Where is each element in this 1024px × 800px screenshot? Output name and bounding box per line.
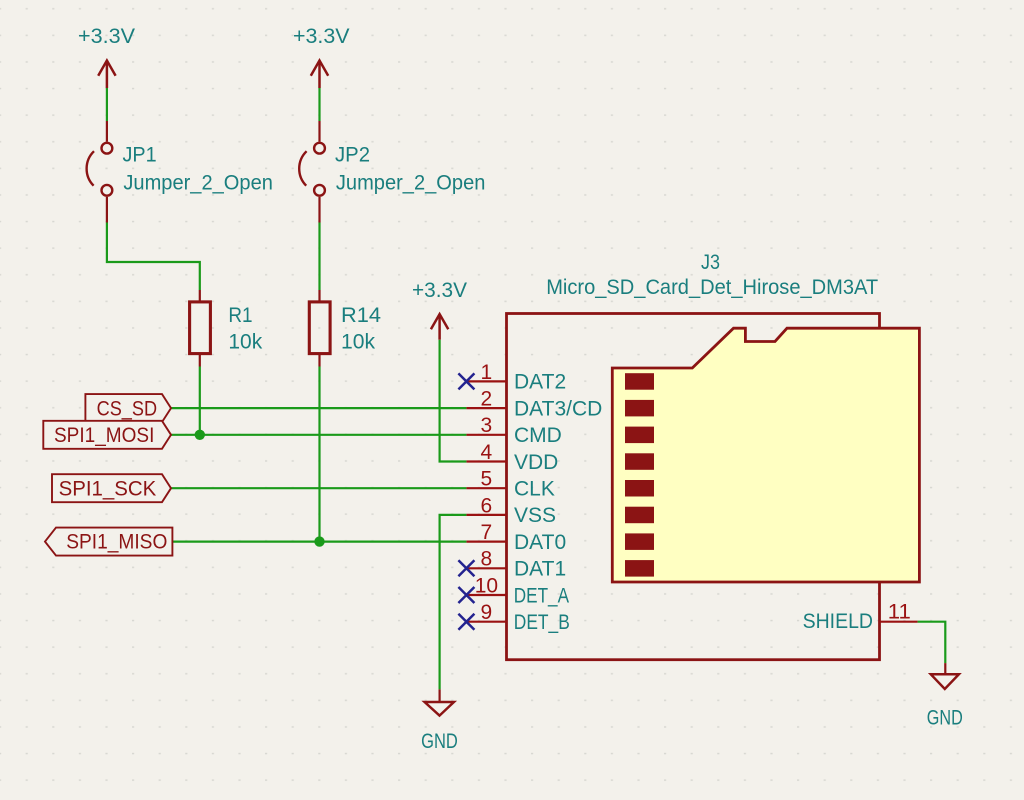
wire SPI1_MOSI to pin 3: [171, 434, 466, 436]
pin 10 DET_A: [466, 574, 569, 607]
pin 4 VDD: [466, 441, 558, 474]
global label SPI1_MOSI: [43, 421, 171, 449]
svg-text:+3.3V: +3.3V: [293, 25, 350, 48]
pin 11 SHIELD: [803, 601, 918, 634]
wire R14 to SPI1_MISO net: [318, 367, 320, 542]
resistor R1: [190, 290, 263, 367]
svg-text:DAT3/CD: DAT3/CD: [514, 397, 602, 420]
junction R1 / SPI1_MOSI: [195, 430, 205, 440]
svg-text:Jumper_2_Open: Jumper_2_Open: [336, 172, 486, 195]
global label SPI1_SCK: [52, 474, 171, 502]
svg-text:VDD: VDD: [514, 451, 558, 474]
svg-text:VSS: VSS: [514, 504, 556, 527]
wire VSS pin 6 to GND: [440, 515, 467, 690]
pin 3 CMD: [466, 414, 561, 447]
wire CS_SD to pin 2: [171, 407, 466, 409]
wire SPI1_SCK to pin 5: [171, 487, 466, 489]
no-connect X pin 10: [458, 587, 474, 603]
ground GND right: [927, 663, 963, 729]
pin 7 DAT0: [466, 521, 566, 554]
J3 reference label: [701, 251, 720, 274]
svg-text:DAT2: DAT2: [514, 371, 566, 394]
wire +3.3V to JP2: [318, 88, 320, 121]
no-connect X pin 1: [458, 373, 474, 389]
resistor R14: [309, 290, 381, 367]
svg-text:+3.3V: +3.3V: [78, 25, 135, 48]
svg-text:CMD: CMD: [514, 424, 562, 447]
svg-text:R14: R14: [341, 304, 381, 327]
power +3.3V symbol 2: [293, 25, 350, 88]
no-connect X pin 8: [458, 560, 474, 576]
svg-text:J3: J3: [701, 251, 720, 274]
svg-text:DET_A: DET_A: [514, 584, 569, 607]
svg-text:Jumper_2_Open: Jumper_2_Open: [123, 172, 273, 195]
jumper JP1: [87, 121, 273, 223]
power +3.3V symbol 3: [412, 279, 467, 340]
pin 1 DAT2: [466, 361, 566, 394]
svg-text:3: 3: [481, 414, 493, 437]
global label CS_SD: [85, 394, 171, 422]
pin 6 VSS: [466, 494, 556, 527]
ground GND left: [421, 689, 458, 753]
svg-text:2: 2: [481, 388, 493, 411]
svg-text:9: 9: [481, 601, 493, 624]
svg-text:1: 1: [481, 361, 493, 384]
svg-text:10k: 10k: [228, 331, 262, 354]
svg-text:4: 4: [481, 441, 493, 464]
svg-text:7: 7: [481, 521, 493, 544]
wire +3.3V to pin 4 VDD: [440, 340, 467, 462]
wire +3.3V to JP1: [106, 88, 108, 121]
svg-text:DAT0: DAT0: [514, 531, 566, 554]
SD card outline: [612, 328, 919, 582]
no-connect X pin 9: [458, 614, 474, 630]
connector J3 body: [507, 314, 880, 660]
svg-text:GND: GND: [421, 730, 458, 753]
pin 8 DAT1: [466, 548, 566, 581]
junction R14 / SPI1_MISO: [314, 536, 324, 546]
svg-text:GND: GND: [927, 707, 963, 730]
card contact pads: [625, 373, 654, 576]
power +3.3V symbol 1: [78, 25, 135, 88]
jumper JP2: [299, 121, 485, 223]
svg-text:SPI1_SCK: SPI1_SCK: [59, 477, 157, 500]
global label SPI1_MISO: [45, 528, 172, 556]
svg-text:8: 8: [481, 548, 493, 571]
pin 5 CLK: [466, 468, 554, 501]
svg-text:10: 10: [475, 574, 498, 597]
svg-text:R1: R1: [228, 304, 252, 327]
svg-text:JP1: JP1: [123, 144, 157, 167]
svg-text:CLK: CLK: [514, 478, 555, 501]
wire R1 to SPI1_MOSI net: [199, 367, 201, 435]
wire SPI1_MISO to pin 7: [172, 540, 466, 542]
svg-text:DET_B: DET_B: [514, 611, 570, 634]
wire JP1 to R1: [107, 223, 200, 291]
svg-text:DAT1: DAT1: [514, 558, 566, 581]
svg-text:JP2: JP2: [335, 144, 370, 167]
svg-text:11: 11: [888, 601, 911, 624]
svg-text:5: 5: [481, 468, 493, 491]
svg-text:+3.3V: +3.3V: [412, 279, 467, 302]
wire pin 11 to GND: [918, 622, 946, 663]
pin 9 DET_B: [466, 601, 569, 634]
svg-text:SHIELD: SHIELD: [803, 610, 873, 633]
wire JP2 to R14: [318, 223, 320, 291]
svg-text:SPI1_MOSI: SPI1_MOSI: [54, 424, 154, 447]
J3 value label: [546, 276, 878, 299]
svg-text:10k: 10k: [341, 331, 376, 354]
pin 2 DAT3/CD: [466, 388, 602, 421]
svg-text:6: 6: [481, 494, 493, 517]
svg-text:SPI1_MISO: SPI1_MISO: [66, 531, 167, 554]
svg-text:Micro_SD_Card_Det_Hirose_DM3AT: Micro_SD_Card_Det_Hirose_DM3AT: [546, 276, 878, 299]
svg-text:CS_SD: CS_SD: [97, 398, 158, 421]
